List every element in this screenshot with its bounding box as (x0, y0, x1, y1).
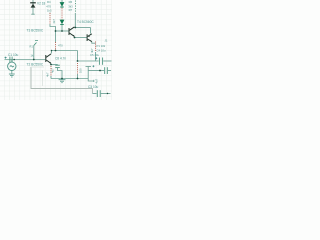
svg-text:J1: J1 (105, 39, 108, 43)
svg-text:P1 10k: P1 10k (97, 44, 106, 48)
svg-text:4k7: 4k7 (90, 48, 94, 53)
svg-text:4k7: 4k7 (46, 72, 50, 77)
svg-text:R1: R1 (30, 45, 34, 49)
svg-text:C3 10u: C3 10u (88, 85, 99, 89)
svg-text:T4 BC560C: T4 BC560C (77, 20, 94, 24)
svg-text:C8 4.7n: C8 4.7n (55, 57, 66, 61)
svg-text:1k5: 1k5 (47, 9, 52, 13)
svg-text:T2 BC550C: T2 BC550C (27, 63, 44, 67)
svg-text:4u7: 4u7 (95, 78, 99, 83)
svg-text:C1 10u: C1 10u (8, 53, 19, 57)
svg-text:R7: R7 (69, 8, 73, 12)
svg-text:4u7: 4u7 (51, 68, 55, 73)
svg-text:100: 100 (79, 68, 83, 73)
svg-text:470: 470 (58, 44, 63, 48)
svg-text:C4 10u: C4 10u (97, 48, 106, 52)
svg-text:T3 BC550C: T3 BC550C (27, 29, 44, 33)
svg-text:V2 18: V2 18 (37, 1, 46, 5)
svg-text:4k7: 4k7 (52, 19, 56, 24)
